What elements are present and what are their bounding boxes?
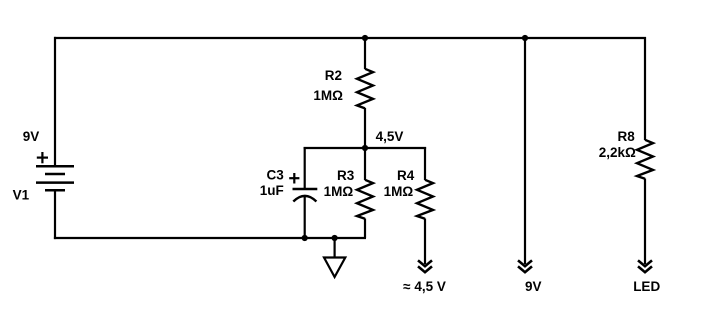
capacitor C3 plus sign	[289, 173, 299, 184]
wire top horizontal rail	[54, 37, 646, 39]
wire C3 bottom lead	[304, 196, 306, 238]
wire R3 bottom lead	[364, 219, 366, 239]
resistor R2	[357, 69, 373, 109]
resistor R8	[637, 140, 653, 179]
junction dot bottom rail at C3	[302, 235, 308, 241]
wire R4 bottom lead (to output arrow)	[424, 219, 426, 265]
junction dot top rail at R2	[362, 35, 368, 41]
svg-text:1uF: 1uF	[260, 183, 284, 198]
capacitor C3 plates	[293, 189, 318, 202]
svg-text:9V: 9V	[23, 129, 40, 144]
wire bottom horizontal rail	[54, 237, 366, 239]
svg-text:R2: R2	[325, 68, 342, 83]
wire R2 bottom lead	[364, 108, 366, 148]
resistor R3	[357, 180, 373, 219]
resistor R4	[417, 180, 433, 219]
svg-text:≈ 4,5 V: ≈ 4,5 V	[403, 279, 446, 294]
wire R4 top lead	[424, 147, 426, 180]
wire R8 bottom lead (to LED arrow)	[644, 179, 646, 265]
svg-text:C3: C3	[267, 168, 285, 183]
svg-text:1MΩ: 1MΩ	[384, 184, 414, 199]
output arrow LED branch	[638, 260, 652, 272]
wire 9V branch vertical	[524, 38, 526, 264]
output arrow under R4	[418, 260, 432, 272]
svg-text:V1: V1	[13, 188, 30, 203]
svg-text:R3: R3	[337, 168, 355, 183]
battery V1 plates	[36, 166, 74, 190]
svg-text:9V: 9V	[525, 279, 542, 294]
junction dot top rail at 9V branch	[522, 35, 528, 41]
wire left vertical (battery top lead)	[54, 37, 56, 166]
svg-text:1MΩ: 1MΩ	[313, 88, 343, 103]
wire R2 top lead	[364, 38, 366, 69]
svg-text:R4: R4	[397, 168, 415, 183]
wire battery bottom lead	[54, 190, 56, 239]
svg-text:R8: R8	[618, 129, 636, 144]
wire ground stub	[334, 238, 336, 258]
junction dot bottom rail at ground	[332, 235, 338, 241]
output arrow 9V branch	[518, 260, 532, 272]
svg-text:LED: LED	[633, 279, 660, 294]
svg-text:1MΩ: 1MΩ	[324, 184, 354, 199]
node 4,5V junction dot (R2/R3 on middle wire)	[362, 145, 368, 151]
ground symbol	[324, 258, 345, 278]
wire R8 top lead	[644, 37, 646, 140]
wire R3 top lead	[364, 148, 366, 180]
svg-text:4,5V: 4,5V	[376, 129, 404, 144]
battery V1 plus sign	[37, 152, 48, 163]
wire C3 top lead	[304, 147, 306, 189]
wire middle horizontal (4,5V node)	[304, 147, 427, 149]
svg-text:2,2kΩ: 2,2kΩ	[599, 145, 636, 160]
